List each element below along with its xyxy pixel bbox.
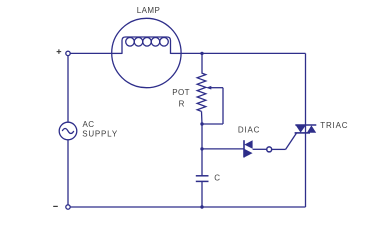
wire right rail lower (triac MT1 to bottom rail): [305, 133, 307, 207]
wire diac branch horizontal: [202, 148, 244, 150]
pot wiper shaft: [211, 87, 223, 89]
wire right rail upper (corner to triac MT2): [305, 53, 307, 125]
node pot bottom junction: [200, 122, 203, 125]
diac upper triangle (points left): [244, 140, 252, 149]
wire middle rail (diac branch to capacitor): [201, 149, 203, 176]
label - (minus sign): [53, 205, 58, 207]
terminal - (open circle, bottom left): [66, 205, 70, 209]
diac left bar: [243, 140, 245, 157]
svg-text:R: R: [179, 100, 185, 109]
wire pot bottom lead: [201, 111, 204, 124]
lamp filament coil loop 3: [143, 38, 152, 47]
wire capacitor to bottom rail: [201, 181, 203, 207]
svg-text:TRIAC: TRIAC: [320, 121, 348, 130]
lamp lead-in wire right: [171, 52, 182, 54]
capacitor C bottom plate: [196, 180, 209, 182]
node top junction (middle rail taps top rail): [200, 52, 203, 55]
wire top rail left (plus terminal to lamp): [70, 52, 111, 54]
node bottom junction: [200, 205, 203, 208]
lamp filament coil loop 5: [160, 38, 169, 47]
AC source sine wave: [62, 129, 74, 134]
wire diac to gate terminal circle: [253, 148, 267, 150]
wire left rail lower (AC source to minus terminal): [67, 140, 69, 205]
triac left triangle (points down): [296, 125, 306, 132]
terminal + (open circle, top left): [66, 51, 70, 55]
diac lower triangle (points right): [244, 149, 252, 158]
lamp circle: [112, 18, 181, 87]
svg-text:DIAC: DIAC: [238, 125, 260, 134]
node diac branch junction: [200, 147, 203, 150]
potentiometer R zigzag body: [197, 73, 206, 111]
svg-text:C: C: [214, 174, 220, 183]
pot wiper arrow head: [206, 86, 211, 90]
triac top bar: [295, 124, 316, 126]
triac right triangle (points up): [307, 125, 316, 132]
svg-text:SUPPLY: SUPPLY: [82, 130, 118, 139]
lamp filament coil loop 2: [134, 38, 143, 47]
wire middle rail (pot junction to diac branch): [201, 124, 203, 149]
wire middle rail top (junction to pot): [201, 53, 203, 73]
triac bottom bar: [295, 132, 310, 134]
wire left rail upper (plus terminal to AC source): [67, 56, 69, 123]
lamp lead-in wire left: [112, 52, 122, 54]
wire gate horizontal: [272, 148, 286, 150]
AC source circle: [59, 122, 77, 140]
wire top rail right (lamp to top-right corner): [181, 52, 305, 54]
wire wiper horizontal return: [202, 123, 223, 125]
svg-text:LAMP: LAMP: [137, 6, 160, 15]
wire wiper vertical return: [222, 88, 224, 124]
wire gate diagonal to triac: [286, 133, 297, 150]
lamp filament coil loop 4: [151, 38, 160, 47]
gate terminal open circle: [267, 147, 272, 152]
svg-text:AC: AC: [83, 120, 95, 129]
lamp filament frame (risers and top line): [122, 37, 171, 54]
svg-text:POT: POT: [172, 88, 190, 97]
wire triac internal segment: [305, 125, 307, 133]
lamp filament coil loop 1: [126, 38, 135, 47]
capacitor C top plate: [196, 175, 209, 177]
wire bottom rail: [70, 206, 305, 208]
label + (plus sign): [57, 49, 62, 54]
